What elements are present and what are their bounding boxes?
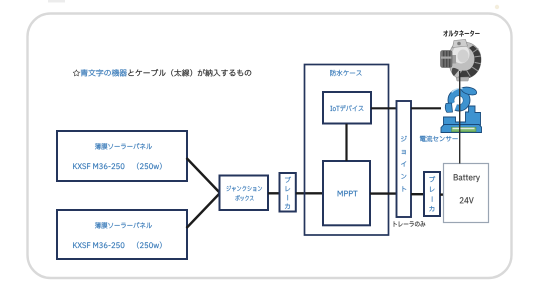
joint connector (397, 101, 412, 217)
label: current sensor (420, 136, 458, 142)
battery 24V (444, 164, 489, 223)
wire PV2 to junction box (187, 193, 221, 228)
IoT device (323, 92, 371, 124)
faint dot near top-right (495, 5, 499, 9)
wire breaker B1 to MPPT (296, 192, 324, 194)
wire junction box to breaker B1 (268, 192, 280, 194)
note: blue-items legend (73, 69, 251, 76)
wire joint to current sensor (411, 107, 441, 109)
outer rounded frame (28, 14, 512, 279)
solar panel PV1 (57, 131, 187, 181)
label: alternator (443, 30, 479, 36)
wire breaker B2 to battery (440, 193, 444, 195)
faint cropped mark at top edge (48, 0, 65, 3)
waterproof case (bousui case) (305, 65, 389, 236)
wire IoT to MPPT (345, 124, 347, 161)
wire PV1 to junction box (187, 158, 221, 193)
breaker B2 (424, 172, 440, 216)
wire alternator to battery (through CT) (459, 71, 461, 164)
MPPT charge controller (323, 161, 370, 225)
label: trailer only (394, 221, 426, 226)
breaker B1 (280, 173, 296, 212)
solar panel PV2 (57, 210, 187, 259)
wire MPPT to joint (370, 192, 397, 194)
current sensor (clamp CT) (441, 87, 482, 132)
alternator (pictorial) (441, 40, 482, 82)
wire joint to breaker B2 (411, 193, 424, 195)
junction box (220, 176, 269, 211)
wire IoT to joint (371, 107, 397, 109)
